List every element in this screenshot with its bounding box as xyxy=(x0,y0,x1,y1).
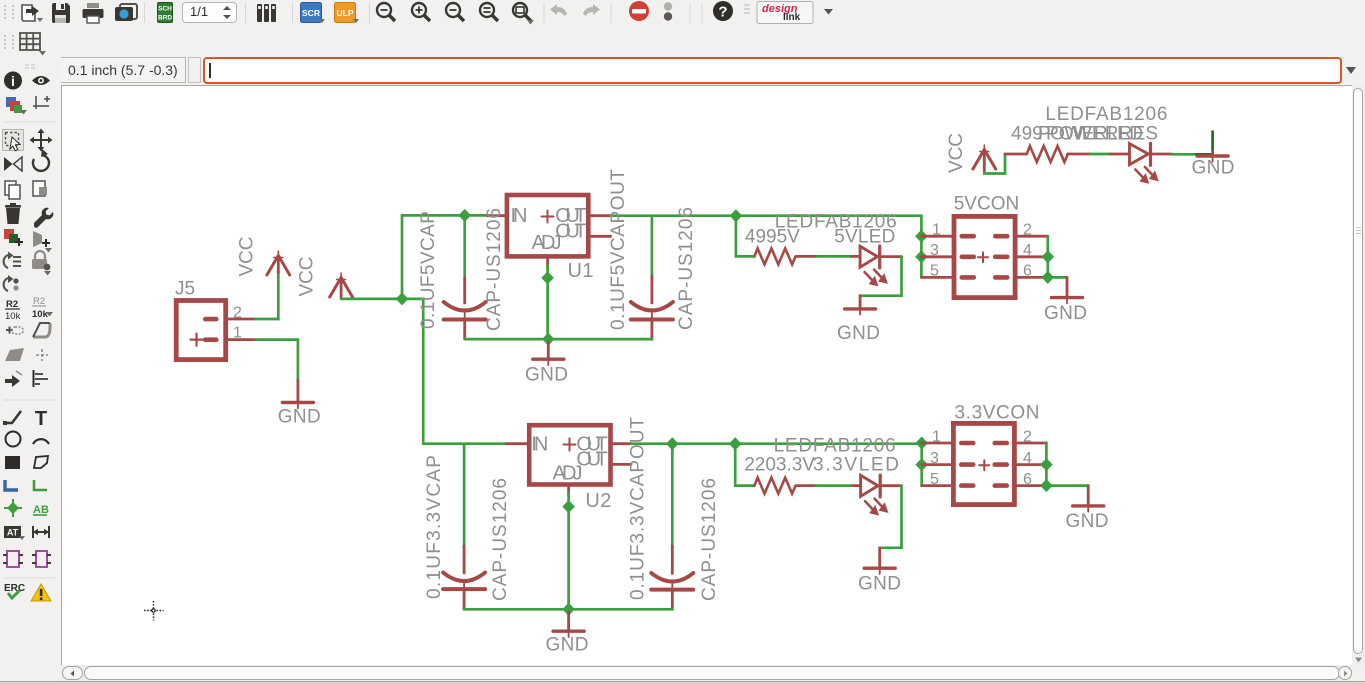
attribute tool xyxy=(4,526,21,538)
junction ADJ net (U2) xyxy=(562,500,575,513)
capacitor C1 5VCAP lead xyxy=(463,215,466,280)
wire 5V output rail xyxy=(611,214,922,217)
svg-text:10k: 10k xyxy=(32,309,49,320)
5VCON pin 6 stub xyxy=(1018,276,1048,279)
resistor POWERRES xyxy=(1027,146,1068,162)
wire 3.3V gnd rail xyxy=(464,608,672,611)
resistor 5VRES xyxy=(754,248,795,264)
J5 pad pin 1 xyxy=(203,337,219,342)
polygon tool xyxy=(34,456,48,468)
save icon xyxy=(49,1,73,25)
ground GND (U1) xyxy=(533,342,564,365)
svg-text:U1: U1 xyxy=(568,260,594,282)
svg-text:CAP-US1206: CAP-US1206 xyxy=(676,207,697,330)
svg-text:ERC: ERC xyxy=(4,583,25,594)
wire down to 3.3V LED row xyxy=(735,444,754,486)
svg-text:link: link xyxy=(783,12,801,23)
power VCC symbol (J5) xyxy=(267,251,290,275)
svg-text:ULP: ULP xyxy=(337,8,354,18)
svg-text:i: i xyxy=(11,73,15,89)
junction 5V input cap xyxy=(458,209,471,222)
svg-text:0.1UF3.3VCAPOUT: 0.1UF3.3VCAPOUT xyxy=(628,417,649,600)
copy xyxy=(5,181,16,195)
junction 3.3VCON pin1 xyxy=(915,437,928,450)
svg-text:AT: AT xyxy=(7,528,19,538)
svg-text:GND: GND xyxy=(1192,158,1235,179)
U2 IN pin xyxy=(507,442,527,445)
zoom tools xyxy=(374,0,844,27)
5VCON pin 4 stub xyxy=(1018,255,1048,258)
sheet spinbox xyxy=(182,2,237,23)
wire LED to GND xyxy=(860,256,901,295)
gateswap2 xyxy=(36,551,47,567)
svg-text:ADJ: ADJ xyxy=(553,462,583,484)
LED 5VLED arrows xyxy=(865,270,888,286)
wire 5V gnd rail xyxy=(465,338,652,341)
3.3VCON pin 1 stub xyxy=(922,442,951,445)
library icon xyxy=(254,1,280,25)
group select (active) xyxy=(3,130,24,151)
split xyxy=(5,375,20,387)
move xyxy=(34,133,48,147)
junction 3.3V rail to LED xyxy=(729,437,742,450)
capacitor C2 5VCAPOUT lead xyxy=(651,216,654,278)
ground GND (power LED) xyxy=(1197,150,1228,162)
svg-text:IN: IN xyxy=(531,433,548,455)
svg-text:U2: U2 xyxy=(585,490,611,512)
junction 5V rail to LED xyxy=(730,209,743,222)
smash xyxy=(6,327,13,334)
wire rail to 5VCON xyxy=(920,216,923,278)
svg-text:SCR: SCR xyxy=(302,8,320,18)
net tool xyxy=(34,480,47,490)
wire GND stub up xyxy=(1211,132,1214,155)
5VCON pin 5 stub xyxy=(921,276,951,279)
wire VCC to node A xyxy=(341,298,402,301)
lock xyxy=(35,251,45,259)
svg-text:1: 1 xyxy=(932,222,941,239)
wrench xyxy=(34,208,53,228)
bottom strip xyxy=(0,681,1365,684)
3.3VCON pin 6 stub xyxy=(1014,484,1046,487)
svg-text:GND: GND xyxy=(1044,303,1087,324)
wire J5.1 to GND xyxy=(256,340,298,382)
svg-text:2203.3V: 2203.3V xyxy=(744,455,815,476)
svg-text:3.3VCON: 3.3VCON xyxy=(955,402,1040,423)
wire ADJ down xyxy=(546,266,549,340)
rotate xyxy=(33,155,49,171)
svg-text:GND: GND xyxy=(546,635,589,656)
junction tool xyxy=(7,502,19,514)
wire 3.3VCON gnd link xyxy=(1046,443,1088,486)
svg-text:3: 3 xyxy=(930,242,939,259)
junction 3.3V out cap xyxy=(666,437,679,450)
svg-text:4995V: 4995V xyxy=(745,227,800,248)
wire down to 5V LED row xyxy=(736,216,755,257)
dimension tool xyxy=(33,526,49,538)
U1 ADJ pin stub xyxy=(546,259,549,268)
svg-text:CAP-US1206: CAP-US1206 xyxy=(490,478,511,601)
svg-text:3: 3 xyxy=(930,450,939,467)
junction 3.3VCON pin6 xyxy=(1040,479,1053,492)
ground GND (U2) xyxy=(553,612,584,637)
LED POWERLED arrows xyxy=(1135,167,1158,183)
capacitor C2 5VCAPOUT xyxy=(631,276,673,340)
LED 3.3VLED lead xyxy=(853,484,861,487)
LED POWERLED lead xyxy=(1110,153,1129,156)
wire resistor to 3.3V LED xyxy=(816,484,853,487)
junction 5VCON pin3 xyxy=(915,250,928,263)
resistor 3.3VRES lead xyxy=(797,484,816,487)
svg-text:GND: GND xyxy=(837,323,880,344)
svg-text:GND: GND xyxy=(858,574,901,595)
3.3VCON pin 4 stub xyxy=(1014,463,1046,466)
5VCON pads right xyxy=(993,234,1010,280)
svg-text:0.1UF5VCAP: 0.1UF5VCAP xyxy=(418,211,439,329)
ground GND (5V LED) xyxy=(845,296,876,315)
pinswap xyxy=(7,551,19,567)
svg-text:GND: GND xyxy=(1066,511,1109,532)
wire resistor to LED xyxy=(817,255,852,258)
wire node A to 3.3V branch xyxy=(402,299,423,444)
ground GND (5VCON) xyxy=(1052,277,1083,303)
LED 3.3VLED xyxy=(861,475,902,497)
connector 3.3VCON body xyxy=(953,423,1014,504)
svg-text:LEDFAB1206: LEDFAB1206 xyxy=(1045,104,1167,125)
replace xyxy=(4,255,8,268)
svg-text:0.1UF3.3VCAP: 0.1UF3.3VCAP xyxy=(424,455,445,599)
junction 5VCON pin6 xyxy=(1042,271,1055,284)
gateswap xyxy=(4,278,8,291)
svg-text:10k: 10k xyxy=(5,311,21,322)
svg-text:CAP-US1206: CAP-US1206 xyxy=(699,478,720,601)
5VCON pin 3 stub xyxy=(921,255,951,258)
op-amp U1 body xyxy=(507,195,588,256)
3.3VCON pads left xyxy=(959,441,976,488)
image/camera icon xyxy=(112,1,140,25)
wire 5V input rail xyxy=(402,214,488,217)
junction 3.3VCON pin4 xyxy=(1040,458,1053,471)
svg-text:SCH: SCH xyxy=(158,6,172,13)
3.3VCON pin 3 stub xyxy=(922,463,951,466)
capacitor C1 5VCAP xyxy=(444,278,486,339)
capacitor C4 3.3VCAPOUT lead xyxy=(671,444,674,548)
mirror xyxy=(4,157,13,171)
LED 5VLED lead xyxy=(852,255,860,258)
5VCON polarity + xyxy=(978,252,988,262)
U1 polarity + xyxy=(542,211,554,223)
wire 3.3V LED to GND xyxy=(880,486,902,548)
svg-text:5: 5 xyxy=(930,263,939,280)
3.3VCON pin 5 stub xyxy=(922,484,951,487)
errors xyxy=(31,584,51,601)
svg-text:R2: R2 xyxy=(6,299,18,310)
ground GND (J5) xyxy=(282,380,313,408)
U2 OUT2 pin stub xyxy=(611,463,632,466)
wire power LED to GND xyxy=(1172,153,1196,156)
5VCON pin 2 stub xyxy=(1018,235,1048,238)
info xyxy=(4,72,22,90)
svg-text:VCC: VCC xyxy=(297,257,318,297)
wire 3.3V output rail xyxy=(631,442,922,445)
wire 5VCON gnd link xyxy=(1048,236,1067,277)
arc tool xyxy=(33,439,49,444)
junction 5VCON pin4 xyxy=(1042,250,1055,263)
5VCON pin 1 stub xyxy=(921,235,951,238)
eye xyxy=(32,76,50,85)
op-amp U2 body xyxy=(529,425,610,484)
grid mark xyxy=(33,96,50,109)
cut xyxy=(33,181,45,196)
svg-text:J5: J5 xyxy=(175,279,195,300)
J5 pin 1 stub xyxy=(228,338,256,341)
connector 5VCON body xyxy=(954,216,1015,297)
ground GND (3.3VCON) xyxy=(1073,486,1104,512)
svg-text:T: T xyxy=(35,408,47,430)
svg-text:BRD: BRD xyxy=(158,15,172,22)
wire rail to 3.3VCON xyxy=(920,444,923,486)
wire 3.3V input rail xyxy=(423,442,508,445)
J5 pad pin 2 xyxy=(203,317,219,322)
U1 OUT1 pin stub xyxy=(591,214,611,217)
wire tool xyxy=(4,411,21,423)
trash xyxy=(6,208,20,224)
svg-text:1: 1 xyxy=(932,428,941,445)
U2 polarity + xyxy=(564,439,576,451)
LED 5VLED xyxy=(860,246,901,268)
svg-text:CAP-US1206: CAP-US1206 xyxy=(484,208,505,331)
U1 IN pin xyxy=(488,214,505,217)
wire resistor to power LED xyxy=(1090,153,1110,156)
U1 OUT2 pin stub xyxy=(591,235,611,238)
align xyxy=(35,374,48,384)
svg-text:R2: R2 xyxy=(33,296,45,307)
wire J5.2 to VCC xyxy=(255,272,278,320)
capacitor C4 3.3VCAPOUT xyxy=(651,546,693,609)
3.3VCON pads right xyxy=(993,441,1010,488)
3.3VCON polarity + xyxy=(979,460,989,470)
junction 5VCON pin1 xyxy=(915,230,928,243)
svg-text:?: ? xyxy=(718,4,727,21)
5VCON pads left xyxy=(960,234,977,280)
junction ADJ net xyxy=(541,271,554,284)
wire overlap GND pin xyxy=(1196,153,1213,156)
svg-text:VCC: VCC xyxy=(237,237,258,277)
bus tool xyxy=(5,480,18,490)
J5 pin 2 stub xyxy=(228,318,255,321)
svg-text:VCC: VCC xyxy=(946,133,967,173)
polygon shape xyxy=(5,348,24,361)
resistor 5VRES lead xyxy=(796,255,817,258)
svg-text:GND: GND xyxy=(278,407,321,428)
svg-text:0.1UF5VCAPOUT: 0.1UF5VCAPOUT xyxy=(608,169,629,330)
SCH/BRD icon xyxy=(157,2,173,23)
junction 5V gnd rail xyxy=(542,333,555,346)
junction 3.3VCON pin3 xyxy=(915,458,928,471)
U2 OUT1 pin stub xyxy=(611,442,632,445)
junction 3.3V gnd rail xyxy=(562,603,575,616)
add similar xyxy=(33,231,42,247)
LED 3.3VLED arrows xyxy=(865,499,888,515)
wire node A up xyxy=(401,215,404,299)
power VCC symbol (main rail) xyxy=(330,273,353,297)
circle tool xyxy=(6,432,21,447)
ground GND (3.3V LED) xyxy=(864,548,895,574)
dim cross xyxy=(36,349,48,361)
SCR icon xyxy=(300,2,326,24)
resistor 3.3VRES xyxy=(754,478,795,494)
svg-text:5VLED: 5VLED xyxy=(834,227,895,248)
J5 polarity + xyxy=(191,334,203,346)
wire ADJ down (U2) xyxy=(567,493,570,609)
add part xyxy=(4,229,14,239)
resistor POWERRES lead xyxy=(1068,153,1090,156)
3.3VCON pin 2 stub xyxy=(1014,442,1046,445)
capacitor C3 3.3VCAP xyxy=(443,546,485,609)
svg-text:5VCON: 5VCON xyxy=(954,193,1020,214)
power resistor lead xyxy=(1005,153,1027,156)
connector J5 xyxy=(176,301,226,360)
power VCC symbol (power LED) xyxy=(973,145,996,172)
display layers xyxy=(6,97,16,107)
wire VCC to power resistor xyxy=(984,154,1005,174)
svg-text:LEDFAB1206: LEDFAB1206 xyxy=(774,436,896,457)
export icon xyxy=(17,1,45,25)
U2 ADJ pin stub xyxy=(567,485,570,496)
svg-text:POWERLED: POWERLED xyxy=(1038,123,1143,144)
miter xyxy=(33,323,50,337)
svg-text:GND: GND xyxy=(525,364,568,385)
svg-text:ADJ: ADJ xyxy=(532,232,562,254)
svg-text:IN: IN xyxy=(511,205,528,227)
junction node A xyxy=(396,292,409,305)
rect tool xyxy=(5,456,20,469)
svg-text:3.3VLED: 3.3VLED xyxy=(813,455,899,476)
mouse crosshair xyxy=(144,601,164,621)
capacitor C3 3.3VCAP lead xyxy=(463,444,466,548)
print icon xyxy=(81,1,105,25)
ULP icon xyxy=(334,2,360,24)
svg-text:5: 5 xyxy=(930,471,939,488)
LED POWERLED xyxy=(1130,143,1173,165)
